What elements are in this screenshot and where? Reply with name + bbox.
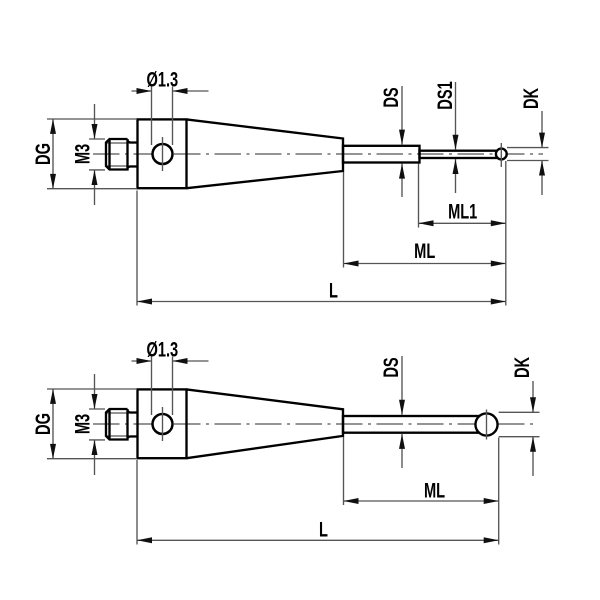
svg-text:DG: DG xyxy=(30,143,55,165)
svg-text:Ø1.3: Ø1.3 xyxy=(146,66,178,91)
svg-text:ML: ML xyxy=(424,478,445,503)
svg-text:ML1: ML1 xyxy=(448,199,477,224)
svg-text:M3: M3 xyxy=(70,144,95,164)
svg-text:DK: DK xyxy=(518,87,543,109)
svg-text:DS1: DS1 xyxy=(432,81,457,109)
svg-text:L: L xyxy=(329,278,338,303)
svg-text:DS: DS xyxy=(378,357,403,377)
svg-text:L: L xyxy=(319,517,328,542)
svg-text:DG: DG xyxy=(30,413,55,435)
svg-text:M3: M3 xyxy=(70,414,95,434)
svg-text:DS: DS xyxy=(378,87,403,107)
svg-text:DK: DK xyxy=(509,356,534,378)
svg-text:ML: ML xyxy=(414,238,435,263)
svg-text:Ø1.3: Ø1.3 xyxy=(146,336,178,361)
